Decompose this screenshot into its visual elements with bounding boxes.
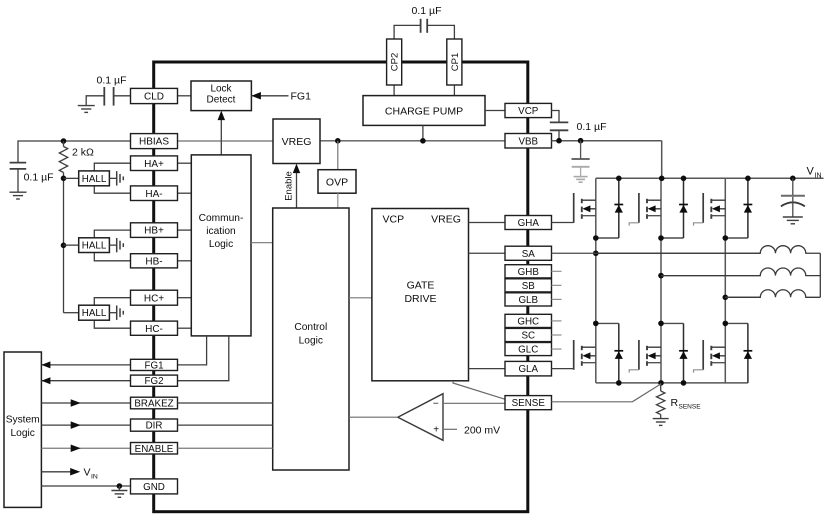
svg-text:0.1 µF: 0.1 µF bbox=[97, 74, 127, 86]
wire control logic to gate drive bbox=[349, 297, 372, 299]
node: phase B output bbox=[658, 273, 664, 279]
pin CP1 bbox=[447, 39, 462, 85]
hall sensor 3 bbox=[79, 305, 110, 320]
wire hall 2 to + pin bbox=[94, 230, 130, 238]
wire FG1 to system logic bbox=[41, 364, 130, 366]
pin FG2 bbox=[131, 375, 178, 386]
svg-text:2 kΩ: 2 kΩ bbox=[72, 146, 94, 158]
ground (VIN cap) bbox=[783, 217, 803, 224]
ground (R_SENSE) bbox=[653, 419, 669, 426]
svg-text:Commun-: Commun- bbox=[199, 213, 244, 224]
bottom (sense) rail bbox=[596, 382, 748, 384]
svg-text:HB+: HB+ bbox=[144, 226, 164, 237]
SA phase line bbox=[552, 252, 761, 254]
stub wire SB bbox=[552, 284, 562, 286]
high-side diode branch A bbox=[596, 237, 619, 239]
svg-text:CP1: CP1 bbox=[450, 53, 461, 71]
svg-text:GHC: GHC bbox=[517, 316, 539, 327]
wire OVP to control logic bbox=[337, 193, 339, 208]
diode DCh bbox=[747, 178, 749, 238]
hall sensor 2 bbox=[79, 238, 110, 253]
node: phase A low branch bbox=[593, 321, 599, 327]
svg-text:Lock: Lock bbox=[210, 84, 232, 95]
VBB net wire bbox=[552, 140, 662, 142]
node on VIN rail bbox=[616, 176, 622, 182]
svg-text:HALL: HALL bbox=[82, 174, 107, 185]
svg-text:System: System bbox=[6, 415, 40, 426]
FG1 input arrow to lock detect bbox=[251, 95, 288, 97]
pin GLB bbox=[505, 293, 552, 306]
wire supply to hall 3 bbox=[64, 312, 79, 314]
svg-text:Detect: Detect bbox=[207, 94, 236, 105]
gate drive block bbox=[372, 209, 469, 381]
svg-text:VREG: VREG bbox=[282, 136, 312, 148]
stub wire GLB bbox=[552, 298, 562, 300]
wire CP1 to charge pump bbox=[453, 85, 455, 96]
svg-text:CLD: CLD bbox=[144, 92, 164, 103]
node on VIN rail bbox=[681, 176, 687, 182]
stub wire GLC bbox=[552, 348, 562, 350]
svg-text:VCP: VCP bbox=[383, 213, 405, 225]
wire comm logic to control logic bbox=[251, 242, 273, 244]
wire HB+ pin to comm logic bbox=[178, 229, 192, 231]
bypass capacitor on VBB bbox=[580, 141, 582, 159]
svg-text:HA-: HA- bbox=[145, 189, 162, 200]
svg-text:GATE: GATE bbox=[407, 280, 435, 292]
capacitor 0.1 µF (between CP1 and CP2) bbox=[420, 19, 422, 33]
wire HC+ pin to comm logic bbox=[178, 297, 192, 299]
wire gate drive to sense comparator (diagonal) bbox=[453, 381, 506, 400]
sense node to R_SENSE bbox=[660, 383, 662, 391]
wire VREG to VBB pin bbox=[320, 140, 505, 142]
SC phase line bbox=[725, 296, 760, 298]
wire charge pump to VCP bbox=[485, 110, 505, 112]
phase C vertical bbox=[724, 178, 726, 383]
wire gate drive to GHA bbox=[469, 222, 506, 224]
node on VIN rail bbox=[745, 176, 751, 182]
wire gate drive to GLA bbox=[469, 368, 506, 370]
wire charge pump to VBB net bbox=[422, 125, 424, 140]
node: VREG output / OVP tap bbox=[335, 138, 341, 144]
wire CLD to lock detect bbox=[178, 95, 192, 97]
svg-text:Control: Control bbox=[294, 322, 327, 333]
pin SA bbox=[505, 246, 552, 260]
pin DIR bbox=[131, 419, 178, 431]
VIN rail bbox=[596, 177, 824, 179]
svg-text:OVP: OVP bbox=[326, 176, 348, 188]
phase B vertical bbox=[660, 178, 662, 383]
svg-text:HB-: HB- bbox=[145, 256, 162, 267]
wire HC- pin to comm logic bbox=[178, 327, 192, 329]
svg-text:GLB: GLB bbox=[518, 295, 538, 306]
node: phase B low branch bbox=[658, 321, 664, 327]
resistor 2 kΩ bbox=[63, 141, 65, 147]
svg-text:SA: SA bbox=[522, 249, 536, 260]
high-side diode branch B bbox=[661, 237, 684, 239]
diode DAl bbox=[618, 323, 620, 383]
svg-text:DIR: DIR bbox=[146, 421, 163, 432]
svg-text:GLA: GLA bbox=[518, 364, 538, 375]
wire comm logic to FG2 bbox=[178, 336, 229, 381]
motor winding 1 bbox=[596, 246, 821, 254]
transistor QCh bbox=[702, 193, 704, 223]
wire hall 3 to - pin bbox=[94, 320, 130, 328]
node on VIN rail bbox=[790, 176, 796, 182]
capacitor 0.1 µF (HBIAS) bbox=[10, 162, 27, 164]
gate stub QCl bbox=[694, 370, 704, 373]
svg-text:Logic: Logic bbox=[11, 428, 35, 439]
diode DAh bbox=[618, 178, 620, 238]
svg-text:DRIVE: DRIVE bbox=[404, 293, 436, 305]
wire GLA to low gate A bbox=[552, 368, 574, 370]
svg-text:CHARGE PUMP: CHARGE PUMP bbox=[385, 105, 463, 117]
VIN decoupling capacitor (polarized) bbox=[792, 178, 794, 195]
wire cap to ground bbox=[17, 169, 19, 192]
pin HBIAS bbox=[131, 134, 178, 149]
ground (HBIAS cap) bbox=[10, 192, 27, 199]
svg-text:HC-: HC- bbox=[145, 324, 163, 335]
gate stub QCh bbox=[694, 223, 704, 226]
svg-text:VBB: VBB bbox=[518, 136, 538, 147]
pin GND bbox=[131, 479, 178, 494]
motor winding 2 bbox=[661, 268, 820, 276]
wire GHA to high gate A bbox=[552, 222, 574, 224]
wire comparator + input (200 mV ref) bbox=[443, 428, 457, 430]
wire hall 1 to + pin bbox=[94, 163, 130, 171]
node: VBB bypass cap bbox=[578, 138, 584, 144]
wire VCP to bypass capacitor bbox=[552, 111, 560, 123]
svg-text:SENSE: SENSE bbox=[512, 398, 546, 409]
wire SENSE pin to R_SENSE node bbox=[552, 384, 661, 402]
wire comparator - input to SENSE bbox=[443, 402, 505, 404]
wire system logic to DIR bbox=[41, 424, 130, 426]
low-side diode branch A bbox=[596, 322, 619, 324]
svg-text:Enable: Enable bbox=[283, 171, 294, 201]
pin HA+ bbox=[131, 156, 178, 171]
node: phase C output bbox=[723, 295, 729, 301]
svg-text:FG1: FG1 bbox=[291, 90, 312, 102]
svg-text:HA+: HA+ bbox=[144, 159, 164, 170]
wire system logic to GND bbox=[41, 485, 130, 487]
svg-text:0.1 µF: 0.1 µF bbox=[577, 121, 607, 133]
wire FG2 to system logic bbox=[41, 380, 130, 382]
svg-text:VCP: VCP bbox=[518, 106, 539, 117]
hall sensor 1 bbox=[79, 171, 110, 186]
stub wire SC bbox=[552, 334, 562, 336]
svg-text:SENSE: SENSE bbox=[679, 403, 702, 410]
node: hall 1 supply bbox=[61, 176, 67, 182]
communication logic block bbox=[191, 155, 251, 336]
node: ground tap bbox=[117, 483, 123, 489]
svg-text:0.1 µF: 0.1 µF bbox=[412, 5, 442, 17]
gate stub QBl bbox=[629, 370, 639, 373]
stub wire GHB bbox=[552, 270, 562, 272]
wire comm logic to FG1 bbox=[178, 336, 207, 365]
svg-text:200 mV: 200 mV bbox=[464, 424, 500, 436]
wire cap to ground bbox=[86, 96, 104, 106]
enable arrow control logic to VREG bbox=[296, 166, 298, 208]
gate stub QBh bbox=[629, 223, 639, 226]
IC package boundary bbox=[154, 62, 528, 512]
node on VIN rail bbox=[659, 176, 665, 182]
VIN output arrow from system logic bbox=[41, 471, 70, 473]
pin GHA bbox=[505, 216, 552, 230]
wire gate drive to SA bbox=[469, 252, 506, 254]
node: 2k resistor tap on HBIAS net bbox=[61, 138, 67, 144]
pin HA- bbox=[131, 186, 178, 201]
low-side diode branch C bbox=[725, 322, 748, 324]
wire HBIAS to VREG (vreg supply net) bbox=[178, 140, 274, 142]
pin GLC bbox=[505, 343, 552, 356]
node: charge pump bottom on VBB net bbox=[420, 138, 426, 144]
pin GHB bbox=[505, 265, 552, 278]
wire HA+ pin to comm logic bbox=[178, 162, 192, 164]
pin CP2 bbox=[387, 39, 402, 85]
high-side diode branch C bbox=[725, 237, 748, 239]
svg-text:Logic: Logic bbox=[209, 239, 233, 250]
svg-text:−: − bbox=[433, 399, 439, 410]
svg-text:HALL: HALL bbox=[82, 241, 107, 252]
wire hall 2 to - pin bbox=[94, 253, 130, 261]
comparator (current limit) bbox=[398, 394, 443, 441]
wire system logic to ENABLE bbox=[41, 447, 130, 449]
wire supply to hall 2 bbox=[64, 244, 79, 246]
svg-text:GHB: GHB bbox=[518, 267, 540, 278]
node: phase A output bbox=[593, 250, 599, 256]
resistor R_SENSE bbox=[657, 391, 665, 415]
diode DBh bbox=[683, 178, 685, 238]
svg-text:HC+: HC+ bbox=[144, 293, 164, 304]
svg-text:GLC: GLC bbox=[518, 345, 538, 356]
svg-text:BRAKEZ: BRAKEZ bbox=[134, 399, 173, 410]
low-side diode branch B bbox=[661, 322, 684, 324]
wire hall 3 to + pin bbox=[94, 298, 130, 306]
node on bottom rail bbox=[616, 380, 622, 386]
pin SB bbox=[505, 279, 552, 292]
phase A vertical bbox=[595, 178, 597, 383]
svg-text:FG1: FG1 bbox=[144, 360, 163, 371]
wire HB- pin to comm logic bbox=[178, 260, 192, 262]
pin HB- bbox=[131, 254, 178, 268]
system logic block bbox=[4, 352, 41, 507]
stub wire GHC bbox=[552, 320, 562, 322]
svg-text:IN: IN bbox=[91, 473, 98, 480]
diode DBl bbox=[683, 323, 685, 383]
pin CLD bbox=[131, 88, 178, 103]
pin GLA bbox=[505, 361, 552, 376]
wire BRAKEZ to control logic bbox=[178, 402, 273, 404]
svg-text:GHA: GHA bbox=[518, 218, 540, 229]
pin HB+ bbox=[131, 223, 178, 238]
wire system logic to BRAKEZ bbox=[41, 402, 130, 404]
node: phase C high diode bbox=[723, 235, 729, 241]
svg-text:ication: ication bbox=[206, 226, 235, 237]
ground (hall 1) rotated bbox=[109, 177, 116, 179]
wire CP2 to top capacitor bbox=[394, 25, 420, 39]
ground (VBB bypass) bbox=[574, 176, 588, 178]
wire HA- pin to comm logic bbox=[178, 192, 192, 194]
wire DIR to control logic bbox=[178, 424, 273, 426]
HBIAS net to left bbox=[18, 141, 131, 162]
transistor QBh bbox=[638, 193, 640, 223]
wire top capacitor to CP1 bbox=[428, 25, 455, 39]
wire hall 1 to - pin bbox=[94, 186, 130, 193]
svg-text:GND: GND bbox=[143, 482, 165, 493]
svg-text:V: V bbox=[84, 467, 91, 479]
svg-text:Logic: Logic bbox=[299, 336, 323, 347]
pin HC- bbox=[131, 321, 178, 335]
transistor QAl bbox=[573, 340, 575, 370]
ground (hall 3) rotated bbox=[109, 312, 116, 314]
capacitor 0.1 µF (VCP-VBB) bbox=[550, 121, 569, 123]
pin BRAKEZ bbox=[131, 397, 178, 409]
svg-text:R: R bbox=[671, 397, 679, 409]
svg-text:0.1 µF: 0.1 µF bbox=[24, 172, 54, 184]
winding star connection bbox=[819, 253, 821, 297]
transistor QCl bbox=[702, 340, 704, 370]
arrow comm logic to lock detect bbox=[220, 113, 222, 155]
wire ENABLE to control logic bbox=[178, 447, 273, 449]
ground (CLD cap) bbox=[78, 106, 95, 113]
wire supply to hall 1 bbox=[64, 177, 79, 179]
node on bottom rail bbox=[658, 380, 664, 386]
svg-text:IN: IN bbox=[815, 173, 822, 180]
pin SC bbox=[505, 328, 552, 341]
svg-text:+: + bbox=[433, 425, 439, 436]
node: hall 2 supply bbox=[61, 243, 67, 249]
motor winding 3 bbox=[725, 290, 820, 298]
wire VREG net down to OVP bbox=[337, 141, 339, 170]
transistor QBl bbox=[638, 340, 640, 370]
ground (GND pin) bbox=[111, 491, 127, 498]
pin GHC bbox=[505, 314, 552, 327]
node on bottom rail bbox=[681, 380, 687, 386]
pin VBB bbox=[505, 134, 552, 149]
svg-text:CP2: CP2 bbox=[390, 53, 401, 71]
wire comparator output to control logic bbox=[349, 416, 398, 418]
transistor QAh bbox=[573, 193, 575, 223]
svg-text:SB: SB bbox=[522, 281, 536, 292]
pin SENSE bbox=[505, 396, 552, 410]
lock detect block bbox=[191, 81, 251, 111]
hall supply rail bbox=[63, 178, 65, 312]
svg-text:SC: SC bbox=[521, 331, 535, 342]
svg-text:HBIAS: HBIAS bbox=[139, 137, 169, 148]
node: VCP cap on VBB net bbox=[556, 138, 562, 144]
node: phase B high diode bbox=[658, 235, 664, 241]
diode DCl bbox=[747, 323, 749, 383]
ground (hall 2) rotated bbox=[109, 244, 116, 246]
svg-text:FG2: FG2 bbox=[144, 376, 163, 387]
svg-text:HALL: HALL bbox=[82, 308, 107, 319]
pin ENABLE bbox=[131, 443, 178, 455]
SB phase line bbox=[661, 275, 760, 277]
svg-text:VREG: VREG bbox=[431, 213, 461, 225]
capacitor 0.1 µF (CLD) bbox=[114, 95, 131, 97]
wire CP2 to charge pump bbox=[393, 85, 395, 96]
pin HC+ bbox=[131, 290, 178, 305]
node: phase C low branch bbox=[723, 321, 729, 327]
control logic block bbox=[273, 208, 349, 470]
VREG block bbox=[273, 119, 320, 164]
pin VCP bbox=[505, 103, 552, 117]
pin FG1 bbox=[131, 359, 178, 370]
wire VBB to VIN rail bbox=[661, 141, 663, 179]
charge pump block bbox=[363, 96, 485, 126]
svg-text:V: V bbox=[807, 166, 815, 178]
svg-text:ENABLE: ENABLE bbox=[135, 444, 174, 455]
node: phase A high diode bbox=[593, 235, 599, 241]
